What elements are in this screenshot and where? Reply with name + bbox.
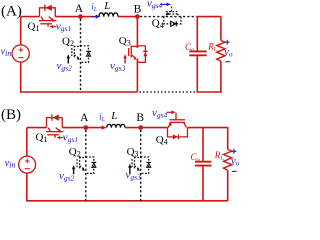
gate voltage arrow vgs3 (B) black: [129, 167, 131, 174]
diode D1 (B) on Q1 loop: [51, 114, 53, 120]
wire: node B down to Q3 (A): [136, 17, 138, 48]
node B (B): [138, 125, 143, 130]
resistor RL (B): [224, 150, 232, 171]
transistor Q4 (A) dashed: [164, 5, 181, 24]
wire: node B to Q4 (B) red: [141, 127, 168, 129]
voltage source Vin (A): [12, 45, 29, 62]
svg-text:L: L: [103, 0, 110, 12]
svg-text:Q4: Q4: [156, 134, 168, 147]
svg-text:Co: Co: [191, 152, 201, 164]
wire: Co branch upper (A): [196, 17, 198, 51]
wire: output loop bottom (A): [197, 91, 222, 93]
svg-text:Q1: Q1: [28, 21, 40, 34]
wire: B top rail left segment: [27, 127, 47, 129]
diode D4 (B) on Q4 loop: [173, 134, 178, 139]
wire: A left rail lower: [20, 62, 22, 92]
wire: RL branch upper (B): [227, 128, 229, 150]
gate arrow vgs4 (A) blue: [160, 3, 167, 5]
transistor Q1 (A): [39, 8, 57, 27]
svg-text:iL: iL: [99, 111, 105, 123]
svg-text:vin: vin: [5, 158, 16, 170]
voltage source Vin (B): [19, 156, 36, 173]
svg-text:vo: vo: [231, 156, 240, 168]
svg-text:Q2: Q2: [69, 146, 81, 159]
wire: inductor to node B: [118, 16, 137, 18]
Q2 (A) emitter arrowhead: [76, 57, 79, 60]
transistor Q3 (A) red: [129, 46, 146, 63]
Q3 (B) emitter arrowhead: [137, 168, 140, 171]
Q4 (A) channel arrowhead: [167, 12, 170, 15]
inductor L (A): [99, 13, 118, 17]
wire: RL branch lower (B): [227, 170, 229, 201]
wire: B left rail lower: [26, 173, 28, 201]
svg-text:(B): (B): [1, 107, 21, 123]
label + vo (B): [232, 149, 237, 154]
wire: node A to inductor: [81, 16, 95, 18]
transistor Q4 (B) red: [168, 113, 188, 137]
svg-text:Q1: Q1: [36, 132, 48, 145]
gate voltage arrow vgs2 (A) black: [67, 58, 69, 64]
node A (A): [78, 14, 83, 19]
current arrow iL (A) blue: [91, 16, 97, 18]
transistor Q2 (B) dashed: [77, 157, 94, 174]
svg-text:vgs1: vgs1: [56, 21, 71, 33]
svg-text:vgs1: vgs1: [63, 131, 78, 144]
svg-text:B: B: [136, 112, 144, 124]
Q1 (A) gate arrow vgs1: [52, 26, 57, 28]
wire: Q4 to output loop (B) red top rail: [188, 127, 229, 129]
capacitor Co (B): [195, 161, 212, 163]
wire: A top rail left segment: [21, 16, 40, 18]
transistor Q3 (B) dashed: [132, 157, 149, 174]
diode D3 (B) on Q3 loop: [146, 161, 151, 163]
Q3 (A) emitter arrowhead: [133, 57, 136, 60]
wire: RL branch lower (A): [220, 61, 222, 93]
gate voltage arrow vgs3 (A) red: [124, 58, 126, 64]
wire: inductor to node B (B): [125, 127, 141, 129]
svg-text:vgs3: vgs3: [126, 169, 142, 182]
wire: dashed leg from node A down (Q2 off path): [80, 19, 82, 92]
wire: Q1 to node A (B): [62, 127, 86, 129]
wire + current arrow iL (B) red: [86, 127, 103, 129]
diode D3 (A) on Q3 loop: [143, 50, 148, 52]
gate voltage arrow vgs2 (B) black: [73, 168, 75, 174]
wire: dashed top rail B to Q4 (A): [140, 16, 196, 18]
svg-text:B: B: [134, 4, 142, 16]
svg-text:Q2: Q2: [62, 36, 74, 49]
wire: dashed bottom rail segment (A): [140, 91, 197, 93]
Q2 (B) emitter arrowhead: [82, 168, 85, 171]
Q4 (B) channel arrowhead: [169, 123, 172, 126]
wire: dashed leg from node A down (B): [85, 130, 87, 201]
Q1 (B) emitter arrowhead: [57, 129, 61, 133]
wire: Co branch lower (B): [202, 166, 204, 201]
svg-text:RL: RL: [207, 41, 218, 53]
wire: Co branch lower (A): [196, 56, 198, 93]
svg-text:Q4: Q4: [152, 18, 164, 31]
Q1 (A) emitter arrowhead: [50, 18, 54, 22]
wire: Q3 down to bottom rail: [136, 59, 138, 93]
wire: Co branch upper (B): [202, 128, 204, 161]
gate arrow vgs4 (B) red: [167, 111, 173, 113]
wire: dashed leg from node B down (B): [140, 130, 142, 201]
svg-text:Q3: Q3: [127, 146, 139, 159]
svg-text:vgs2: vgs2: [57, 60, 73, 73]
node A (B): [83, 125, 88, 130]
svg-text:vgs2: vgs2: [59, 170, 75, 183]
label - vo (B): [232, 170, 237, 172]
svg-text:vgs4: vgs4: [152, 107, 168, 120]
inductor L (B): [107, 124, 125, 127]
svg-text:(A): (A): [1, 3, 22, 19]
transistor Q1 (B): [46, 118, 64, 138]
resistor RL (A): [217, 41, 225, 62]
svg-text:L: L: [110, 110, 117, 122]
diode D4 (A) on Q4 loop: [171, 21, 176, 26]
wire: B bottom rail red full: [26, 200, 228, 202]
diode D2 (A) on Q2 loop: [86, 50, 91, 52]
wire: A bottom rail red: [20, 91, 137, 93]
transistor Q2 (A) dashed: [72, 46, 89, 63]
label - vo (A): [225, 61, 230, 63]
svg-text:Q3: Q3: [119, 35, 131, 48]
diode D1 (A) on Q1 loop: [44, 5, 46, 11]
wire: Q1 to node A: [55, 16, 80, 18]
svg-text:vgs3: vgs3: [110, 60, 126, 73]
wire: RL branch upper (A): [220, 17, 222, 41]
svg-text:A: A: [80, 112, 89, 124]
node B (A): [135, 14, 140, 19]
diode D2 (B) on Q2 loop: [92, 161, 97, 163]
svg-text:vo: vo: [224, 47, 233, 59]
wire: A left rail upper: [20, 17, 22, 45]
svg-text:iL: iL: [91, 2, 97, 14]
svg-text:vgs4: vgs4: [147, 0, 163, 10]
Q1 (B) gate arrow vgs1: [59, 137, 64, 139]
label + vo (A): [225, 40, 230, 45]
wire: output loop top (A): [197, 16, 221, 18]
capacitor Co (A): [189, 50, 206, 52]
svg-text:A: A: [75, 3, 84, 15]
svg-text:vin: vin: [1, 47, 12, 59]
svg-text:RL: RL: [214, 150, 225, 162]
wire: B left rail upper: [26, 128, 28, 157]
svg-text:Co: Co: [185, 42, 195, 54]
